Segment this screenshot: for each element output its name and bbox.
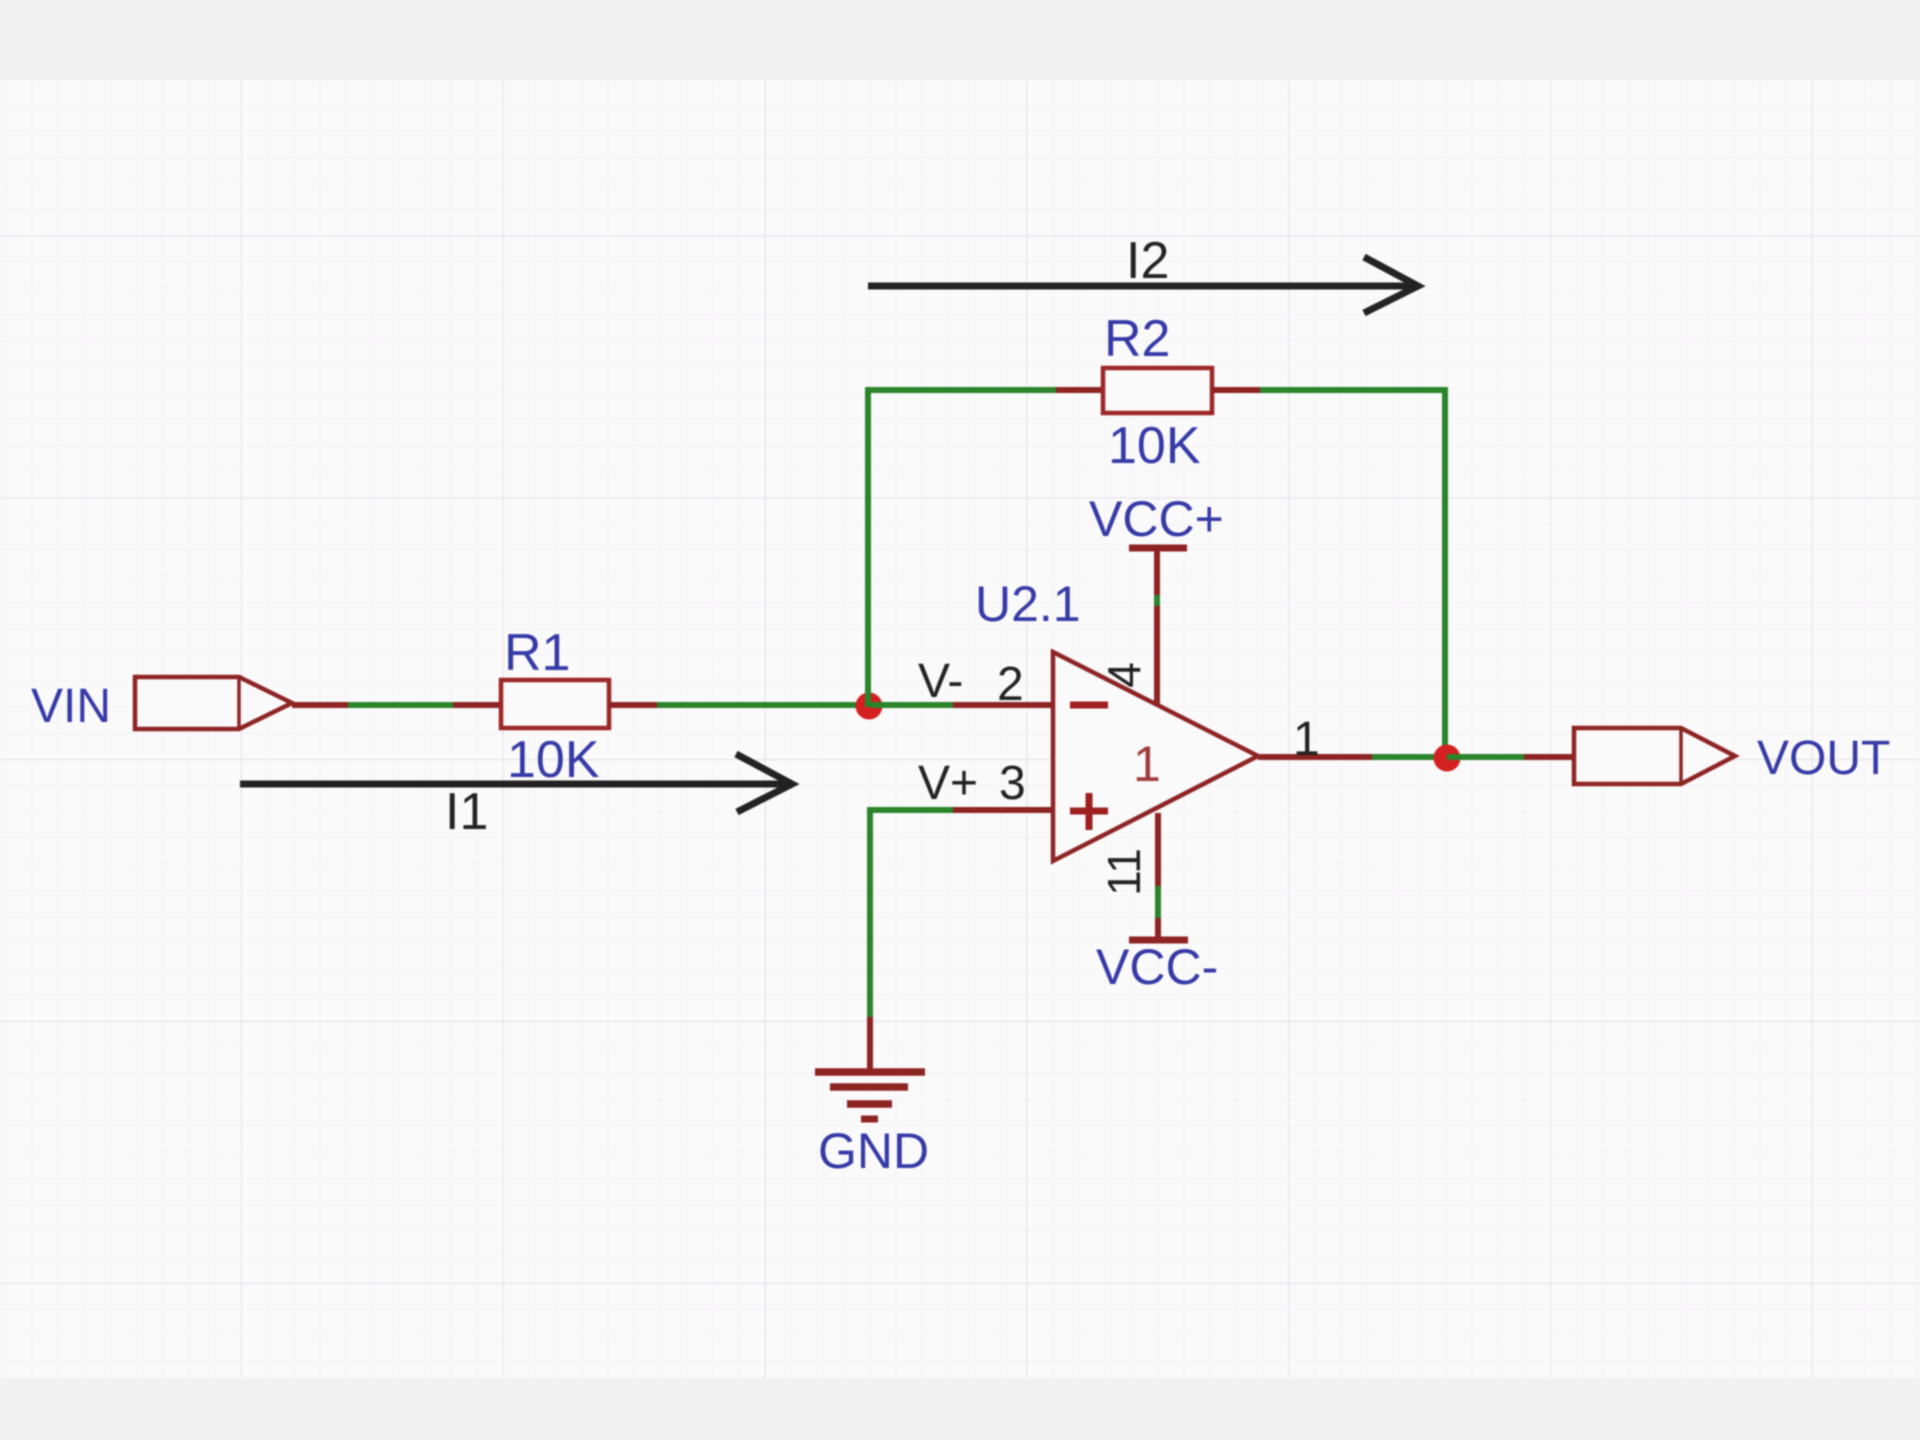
svg-text:11: 11 [1098, 848, 1150, 896]
wire node B to VOUT port [1447, 754, 1574, 760]
current arrow I1 [240, 754, 792, 812]
svg-text:VOUT: VOUT [1757, 732, 1890, 785]
svg-text:3: 3 [999, 757, 1026, 810]
wire pin 3 to ground [870, 807, 953, 1017]
label I1 [445, 783, 488, 841]
svg-text:1: 1 [1293, 713, 1320, 766]
node A junction [856, 693, 883, 720]
svg-text:2: 2 [997, 658, 1024, 711]
wire node A up to feedback [865, 390, 871, 707]
net label VOUT [1757, 732, 1890, 785]
label U2.1 [975, 576, 1081, 632]
pin 1 (output) [1258, 713, 1372, 766]
pin 3 (non-inverting input) [918, 757, 1053, 810]
label R1 [504, 624, 570, 682]
wire VIN to R1 [292, 702, 501, 708]
svg-text:4: 4 [1098, 662, 1150, 688]
wire R2 to output node [1212, 387, 1445, 757]
wire R1 to node A [609, 702, 871, 708]
wire output to node B [1372, 754, 1447, 760]
svg-text:VIN: VIN [31, 680, 111, 733]
svg-text:R2: R2 [1104, 310, 1170, 368]
port VIN [135, 677, 292, 729]
value 10K (R1) [507, 731, 600, 789]
node B junction [1434, 745, 1461, 772]
svg-text:R1: R1 [504, 624, 570, 682]
power flag VCC- [1096, 939, 1218, 995]
svg-text:VCC-: VCC- [1096, 939, 1218, 995]
value 10K (R2) [1108, 417, 1201, 475]
resistor R1 [501, 680, 609, 728]
svg-text:1: 1 [1133, 736, 1161, 792]
svg-text:V+: V+ [918, 757, 978, 810]
label I2 [1126, 232, 1169, 290]
svg-text:10K: 10K [507, 731, 600, 789]
net label VIN [31, 680, 111, 733]
svg-text:U2.1: U2.1 [975, 576, 1081, 632]
current arrow I2 [868, 257, 1418, 313]
ground symbol [815, 1017, 925, 1119]
net label GND [818, 1123, 929, 1179]
pin 2 (inverting input) [918, 655, 1053, 711]
pin 11 (V- supply) [1098, 813, 1158, 937]
svg-text:I1: I1 [445, 783, 488, 841]
svg-text:10K: 10K [1108, 417, 1201, 475]
svg-text:GND: GND [818, 1123, 929, 1179]
svg-text:I2: I2 [1126, 232, 1169, 290]
svg-text:V-: V- [918, 655, 963, 708]
label R2 [1104, 310, 1170, 368]
wire node A to pin 2 [871, 702, 953, 708]
port VOUT [1574, 728, 1735, 784]
svg-text:VCC+: VCC+ [1089, 491, 1224, 547]
op-amp U2.1 [1053, 652, 1258, 861]
wire feedback top to R2 [865, 387, 1103, 393]
pin 4 (V+ supply) [1098, 551, 1157, 706]
resistor R2 [1103, 368, 1212, 413]
power flag VCC+ [1089, 491, 1224, 548]
